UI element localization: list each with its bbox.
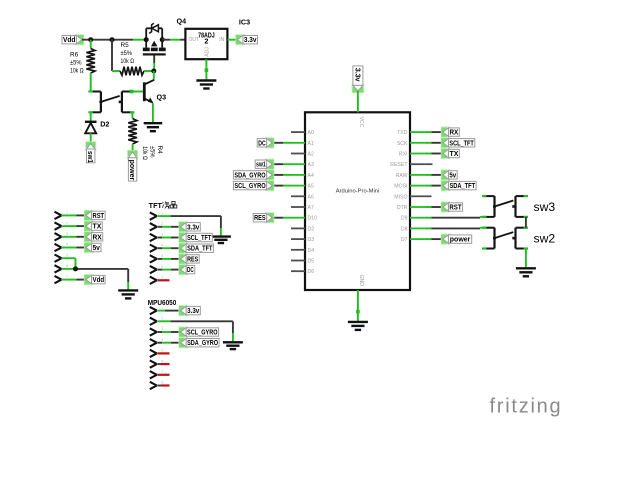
wire J1 pin 6 to ground — [62, 269, 128, 291]
svg-text:fritzing: fritzing — [490, 395, 563, 417]
label IC3 — [239, 18, 250, 27]
IC U1 Arduino-Pro-Mini body — [305, 112, 410, 290]
svg-text:10k Ω: 10k Ω — [121, 58, 135, 65]
U1 GND pin label — [358, 275, 364, 287]
svg-text:RST: RST — [93, 213, 105, 220]
node junction Vdd/R6 — [88, 37, 93, 42]
svg-text:A5: A5 — [308, 184, 314, 190]
svg-text:6: 6 — [66, 264, 68, 268]
svg-text:6: 6 — [161, 359, 163, 363]
svg-text:3: 3 — [161, 233, 163, 237]
net label DC (TFT) — [179, 264, 195, 275]
net label DC (U1 left) — [257, 137, 274, 148]
svg-text:A4: A4 — [308, 173, 314, 179]
svg-text:2: 2 — [161, 222, 163, 226]
net label SCL_GYRO (U1 left) — [233, 180, 274, 191]
switch sw3 — [482, 195, 528, 218]
wire U1 to RX flag — [424, 131, 442, 133]
net label 5v (U1 right) — [441, 169, 457, 180]
svg-text:5v: 5v — [92, 245, 100, 252]
net label 3.3v (TFT) — [179, 221, 201, 232]
svg-text:7: 7 — [66, 275, 68, 279]
wire junction to R5 — [112, 40, 120, 71]
wire MPU pin 2 to ground — [157, 321, 233, 342]
net label power (left) — [127, 150, 138, 181]
svg-text:A3: A3 — [308, 162, 314, 168]
svg-text:TFT: TFT — [149, 201, 163, 210]
svg-text:D2: D2 — [308, 226, 315, 232]
U1 right pin stubs and labels — [390, 130, 424, 243]
svg-text:D7: D7 — [401, 237, 408, 243]
transistor Q4 (P-MOSFET) — [143, 23, 166, 55]
wire GND to ground — [356, 290, 360, 322]
svg-text:sw2: sw2 — [534, 232, 556, 246]
svg-text:RES: RES — [187, 256, 198, 263]
svg-text:D6: D6 — [308, 269, 315, 275]
svg-text:2: 2 — [161, 317, 163, 321]
net label sw1 (U1 left) — [255, 159, 274, 170]
resistor R6 — [86, 40, 95, 73]
diode D2 — [85, 122, 97, 134]
svg-text:ADJ: ADJ — [204, 47, 210, 57]
svg-text:D5: D5 — [308, 259, 315, 265]
resistor R5 — [120, 67, 144, 76]
label Q3 — [157, 93, 167, 102]
net label 3.3v (MPU) — [179, 305, 201, 316]
net label sw1 (left) — [85, 141, 96, 162]
wire MPU pin 4 — [157, 342, 180, 344]
wire J1 pin 5 to pin 6 — [62, 258, 76, 269]
ground TFT gnd — [211, 237, 231, 243]
svg-text:sw1: sw1 — [256, 162, 266, 169]
svg-text:TX: TX — [93, 224, 102, 231]
net label SDA_GYRO (MPU) — [179, 337, 220, 348]
op-amp/regulator IC3 78ADJ — [185, 29, 227, 59]
svg-text:±5%: ±5% — [149, 146, 156, 158]
net label RST (J1) — [84, 210, 105, 221]
wire R6 to switch S1 — [90, 73, 92, 92]
net label 3.3v (VCC) — [352, 66, 365, 93]
svg-text:RX: RX — [449, 130, 458, 137]
net label TX (U1 right) — [441, 148, 460, 159]
svg-text:DTR: DTR — [397, 205, 408, 211]
wire SCL_GYRO flag to U1 — [272, 185, 291, 187]
svg-text:3.3v: 3.3v — [187, 224, 199, 231]
svg-text:5: 5 — [161, 254, 163, 258]
svg-text:2: 2 — [204, 37, 208, 46]
ground U1 GND — [348, 322, 368, 330]
svg-text:D3: D3 — [308, 237, 315, 243]
wire TFT pin 2 — [157, 226, 180, 228]
svg-text:D9: D9 — [401, 216, 408, 222]
svg-text:VCC: VCC — [358, 117, 364, 128]
svg-text:2: 2 — [66, 221, 68, 225]
wire RESET stub — [424, 163, 432, 165]
wire Q3 emitter to ground — [152, 103, 154, 123]
net label SCL_TFT (U1 right) — [441, 137, 475, 148]
svg-text:1: 1 — [66, 211, 68, 215]
net label RST (U1 right) — [441, 201, 463, 212]
wire switch S1 to D2 — [90, 112, 92, 122]
label sw2 text — [534, 232, 556, 246]
wire MPU pin 5 (red) — [157, 352, 169, 354]
label R4 value — [141, 146, 163, 160]
svg-text:SDA_GYRO: SDA_GYRO — [187, 340, 218, 347]
svg-text:SDA_TFT: SDA_TFT — [187, 246, 213, 253]
label fritzing logo — [490, 395, 563, 417]
svg-text:SCL_GYRO: SCL_GYRO — [234, 183, 266, 190]
connector J1 7-pin header — [55, 211, 69, 284]
svg-text:A6: A6 — [308, 194, 314, 200]
wire U1 to TX flag — [424, 153, 442, 155]
label R5 value — [121, 42, 135, 65]
wire TFT pin 1 to ground — [157, 216, 221, 237]
net label SCL_TFT (TFT) — [179, 232, 213, 243]
ground sw2 gnd — [516, 268, 536, 276]
svg-text:SDA_GYRO: SDA_GYRO — [234, 172, 266, 179]
svg-text:SCL_GYRO: SCL_GYRO — [187, 330, 218, 337]
wire IC3 ADJ to ground — [205, 59, 209, 80]
wire J1 pin 7 to Vdd flag — [62, 279, 86, 281]
label TFT header (TFT liquid crystal) — [149, 201, 177, 210]
svg-text:7: 7 — [161, 370, 163, 374]
wire Q4 to IC3 OUT — [162, 39, 185, 41]
wire MPU pin 3 — [157, 331, 180, 333]
svg-text:DC: DC — [187, 267, 194, 274]
svg-text:D4: D4 — [308, 248, 315, 254]
connector TFT 7-pin header — [150, 211, 164, 284]
net label SDA_TFT (TFT) — [179, 243, 214, 254]
svg-text:OUT: OUT — [189, 37, 200, 43]
net label TX (J1) — [84, 221, 102, 232]
wire J1 pin 3 — [62, 236, 86, 238]
svg-text:TXD: TXD — [397, 130, 408, 136]
svg-text:3.3v: 3.3v — [187, 308, 199, 315]
U1 left pin stubs and labels — [291, 130, 317, 275]
svg-text:8: 8 — [161, 381, 163, 385]
wire R4 to power flag — [132, 144, 134, 152]
node junction J1 pins 5/6 — [73, 266, 78, 271]
svg-text:RXI: RXI — [399, 152, 408, 158]
svg-text:power: power — [450, 237, 471, 244]
wire U1 to SCL_TFT flag — [424, 142, 442, 144]
svg-text:4: 4 — [161, 243, 163, 247]
label Q4 — [177, 17, 187, 26]
label sw3 text — [534, 200, 556, 214]
wire MPU pin 1 — [157, 310, 180, 312]
wire sw1 flag to U1 — [272, 163, 291, 165]
svg-text:5v: 5v — [449, 172, 456, 179]
svg-text:R4: R4 — [156, 146, 163, 155]
svg-text:RX: RX — [93, 234, 103, 241]
svg-text:A7: A7 — [308, 205, 314, 211]
svg-text:SCL_TFT: SCL_TFT — [449, 140, 474, 147]
svg-text:DC: DC — [258, 140, 265, 147]
wire MPU pin 7 (red) — [157, 374, 169, 376]
svg-text:SDA_TFT: SDA_TFT — [449, 183, 475, 190]
svg-text:RAW: RAW — [396, 173, 408, 179]
wire Q4 gate down to node — [153, 56, 155, 72]
wire switch S1 to R4 — [131, 112, 133, 118]
svg-text:3.3v: 3.3v — [353, 68, 360, 82]
svg-text:A1: A1 — [308, 141, 314, 147]
svg-text:A2: A2 — [308, 152, 314, 158]
wire U1 to 5v flag — [424, 174, 442, 176]
svg-text:GND: GND — [358, 275, 364, 287]
svg-text:10k Ω: 10k Ω — [70, 68, 84, 75]
net label SDA_TFT (U1 right) — [441, 180, 476, 191]
svg-text:3: 3 — [66, 232, 68, 236]
wire D8 to sw2 — [424, 227, 484, 230]
net label RX (J1) — [84, 231, 103, 242]
wire D2 to sw1 flag — [90, 133, 92, 143]
svg-text:D2: D2 — [100, 120, 109, 129]
svg-text:sw1: sw1 — [86, 151, 93, 163]
switch S1 — [88, 90, 134, 113]
svg-text:D10: D10 — [308, 216, 318, 222]
net label SDA_GYRO (U1 left) — [233, 169, 274, 180]
svg-text:MISO: MISO — [394, 194, 407, 200]
svg-text:5: 5 — [66, 253, 68, 257]
wire TFT pin 7 (red) — [157, 279, 169, 281]
label R6 value — [70, 52, 84, 75]
svg-text:Arduino-Pro-Mini: Arduino-Pro-Mini — [336, 189, 380, 195]
node junction Vdd/R5 — [110, 37, 115, 42]
transistor Q3 (NPN) — [144, 80, 154, 103]
svg-text:10k Ω: 10k Ω — [141, 146, 148, 160]
svg-text:TX: TX — [449, 151, 458, 158]
svg-text:Q4: Q4 — [177, 17, 187, 26]
svg-text:MOSI: MOSI — [394, 184, 407, 190]
wire sw2 to ground — [525, 249, 527, 268]
wire TFT pin 5 — [157, 258, 180, 260]
wire TFT pin 3 — [157, 237, 180, 239]
svg-text:power: power — [128, 160, 135, 181]
net label 3.3v regulator out — [235, 34, 257, 45]
wire DC flag to U1 — [272, 142, 291, 144]
wire U1 to SDA_TFT flag — [424, 185, 442, 187]
svg-text:RESET: RESET — [390, 162, 408, 168]
net label RES (U1 left) — [253, 212, 274, 223]
svg-text:RES: RES — [254, 215, 266, 222]
svg-text:sw3: sw3 — [534, 200, 556, 214]
net label 5v (J1) — [84, 242, 101, 253]
label D2 — [100, 120, 109, 129]
ground J1 — [118, 290, 138, 298]
svg-text:±5%: ±5% — [121, 50, 133, 57]
svg-text:IN: IN — [219, 37, 224, 43]
svg-text:A0: A0 — [308, 130, 314, 136]
wire Vdd to Q4 source — [82, 39, 146, 41]
wire sw3 to sw2 — [525, 217, 527, 228]
wire IC3 IN to 3.3v flag — [227, 39, 237, 41]
net label RX (U1 right) — [441, 127, 460, 138]
ground Q3 emitter — [144, 123, 163, 131]
wire TFT pin 4 — [157, 247, 180, 249]
ground IC3 ADJ — [196, 81, 216, 89]
resistor R4 — [128, 119, 137, 145]
svg-text:3.3v: 3.3v — [244, 37, 257, 44]
net label Vdd (J1) — [84, 274, 105, 285]
svg-text:6: 6 — [161, 265, 163, 269]
svg-text:3: 3 — [161, 327, 163, 331]
wire 3.3v flag to VCC — [357, 91, 359, 112]
svg-text:7: 7 — [161, 276, 163, 280]
wire RES flag to U1 — [272, 217, 291, 219]
wire MPU pin 6 (red) — [157, 363, 169, 365]
wire U1 to RST flag — [424, 206, 442, 208]
wire U1 to power flag — [424, 238, 442, 240]
U1 VCC pin label — [358, 117, 364, 128]
svg-text:R5: R5 — [121, 42, 130, 49]
wire J1 pin 1 — [62, 214, 86, 216]
net label power (U1 right) — [441, 234, 472, 245]
wire node to Q3 collector — [153, 71, 155, 80]
wire J1 pin 2 — [62, 225, 86, 227]
svg-text:4: 4 — [66, 243, 68, 247]
label MPU6050 header — [148, 298, 177, 307]
svg-text:Vdd: Vdd — [93, 277, 105, 284]
net label RES (TFT) — [179, 253, 200, 264]
wire MISO stub — [424, 195, 431, 197]
svg-text:SCL_TFT: SCL_TFT — [187, 235, 212, 242]
svg-text:4: 4 — [161, 338, 163, 342]
svg-text:±5%: ±5% — [70, 60, 82, 67]
svg-text:1: 1 — [161, 211, 163, 215]
ground MPU gnd — [223, 342, 243, 349]
svg-text:5: 5 — [161, 349, 163, 353]
wire J1 pin 4 — [62, 247, 86, 249]
svg-text:RST: RST — [449, 205, 462, 212]
net label Vdd top — [62, 34, 84, 45]
svg-text:Q3: Q3 — [157, 93, 167, 102]
svg-text:1: 1 — [161, 306, 163, 310]
svg-text:D8: D8 — [401, 226, 408, 232]
wire SDA_GYRO flag to U1 — [272, 174, 291, 176]
switch sw2 — [482, 227, 528, 250]
svg-text:SCK: SCK — [397, 141, 408, 147]
net label SCL_GYRO (MPU) — [179, 326, 219, 337]
wire TFT pin 6 — [157, 269, 180, 271]
wire switch S1 to Q3 base — [130, 90, 144, 94]
node junction R5/Q4/Q3 — [151, 69, 156, 74]
svg-text:Vdd: Vdd — [63, 37, 75, 44]
connector MPU6050 8-pin header — [150, 306, 164, 389]
wire D9 to sw3 — [424, 216, 484, 219]
svg-text:IC3: IC3 — [239, 18, 250, 27]
wire MPU pin 8 (red) — [157, 385, 169, 387]
wire R5 to node — [144, 70, 154, 72]
svg-text:R6: R6 — [70, 52, 79, 59]
